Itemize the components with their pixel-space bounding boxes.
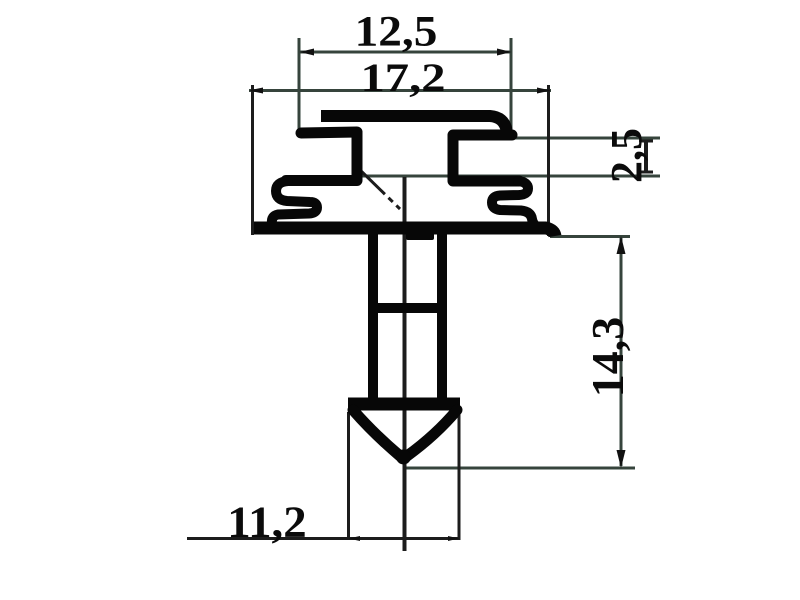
svg-text:2,5: 2,5 [602,128,651,183]
svg-text:12,5: 12,5 [355,7,438,55]
svg-text:11,2: 11,2 [227,496,306,546]
svg-text:14,3: 14,3 [582,317,633,398]
svg-text:17,2: 17,2 [360,55,445,100]
